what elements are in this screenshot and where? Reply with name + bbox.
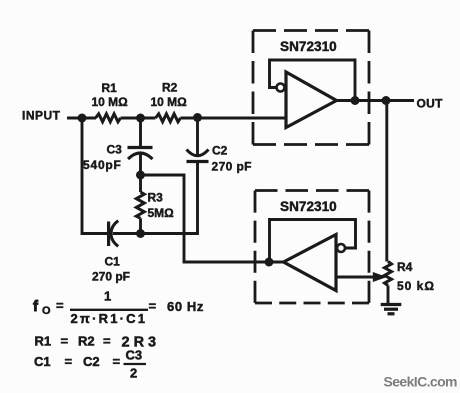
- svg-text:270 pF: 270 pF: [212, 160, 252, 174]
- svg-text:R1: R1: [35, 334, 52, 349]
- svg-text:C1: C1: [105, 255, 121, 269]
- svg-text:SN72310: SN72310: [280, 199, 337, 214]
- svg-text:10 MΩ: 10 MΩ: [151, 95, 188, 109]
- svg-text:=: =: [61, 334, 69, 349]
- svg-text:5MΩ: 5MΩ: [148, 206, 175, 220]
- svg-text:2: 2: [130, 366, 137, 381]
- svg-text:=: =: [56, 298, 64, 313]
- svg-text:10 MΩ: 10 MΩ: [92, 95, 129, 109]
- svg-text:C2: C2: [212, 144, 228, 158]
- svg-text:=: =: [113, 354, 121, 369]
- svg-text:f: f: [33, 298, 39, 315]
- svg-text:60 Hz: 60 Hz: [167, 299, 204, 314]
- svg-text:=: =: [103, 334, 111, 349]
- svg-text:R3: R3: [148, 191, 164, 205]
- svg-text:R2: R2: [162, 81, 178, 95]
- svg-text:2π·R1·C1: 2π·R1·C1: [71, 311, 148, 326]
- svg-text:R4: R4: [397, 260, 413, 274]
- svg-text:=: =: [149, 299, 157, 314]
- svg-text:270 pF: 270 pF: [92, 270, 130, 284]
- svg-text:SN72310: SN72310: [280, 39, 337, 54]
- svg-text:C2: C2: [83, 354, 100, 369]
- svg-text:1: 1: [104, 289, 111, 304]
- svg-text:OUT: OUT: [417, 97, 444, 111]
- svg-text:INPUT: INPUT: [22, 109, 61, 123]
- svg-text:50 kΩ: 50 kΩ: [397, 279, 435, 293]
- svg-text:C1: C1: [34, 354, 51, 369]
- svg-text:540pF: 540pF: [83, 158, 122, 172]
- svg-text:R1: R1: [102, 81, 118, 95]
- svg-text:SeekIC.com: SeekIC.com: [384, 374, 458, 390]
- svg-text:O: O: [42, 305, 51, 317]
- svg-text:C3: C3: [126, 348, 143, 363]
- svg-text:C3: C3: [107, 143, 123, 157]
- svg-text:R2: R2: [78, 334, 95, 349]
- svg-text:=: =: [65, 354, 73, 369]
